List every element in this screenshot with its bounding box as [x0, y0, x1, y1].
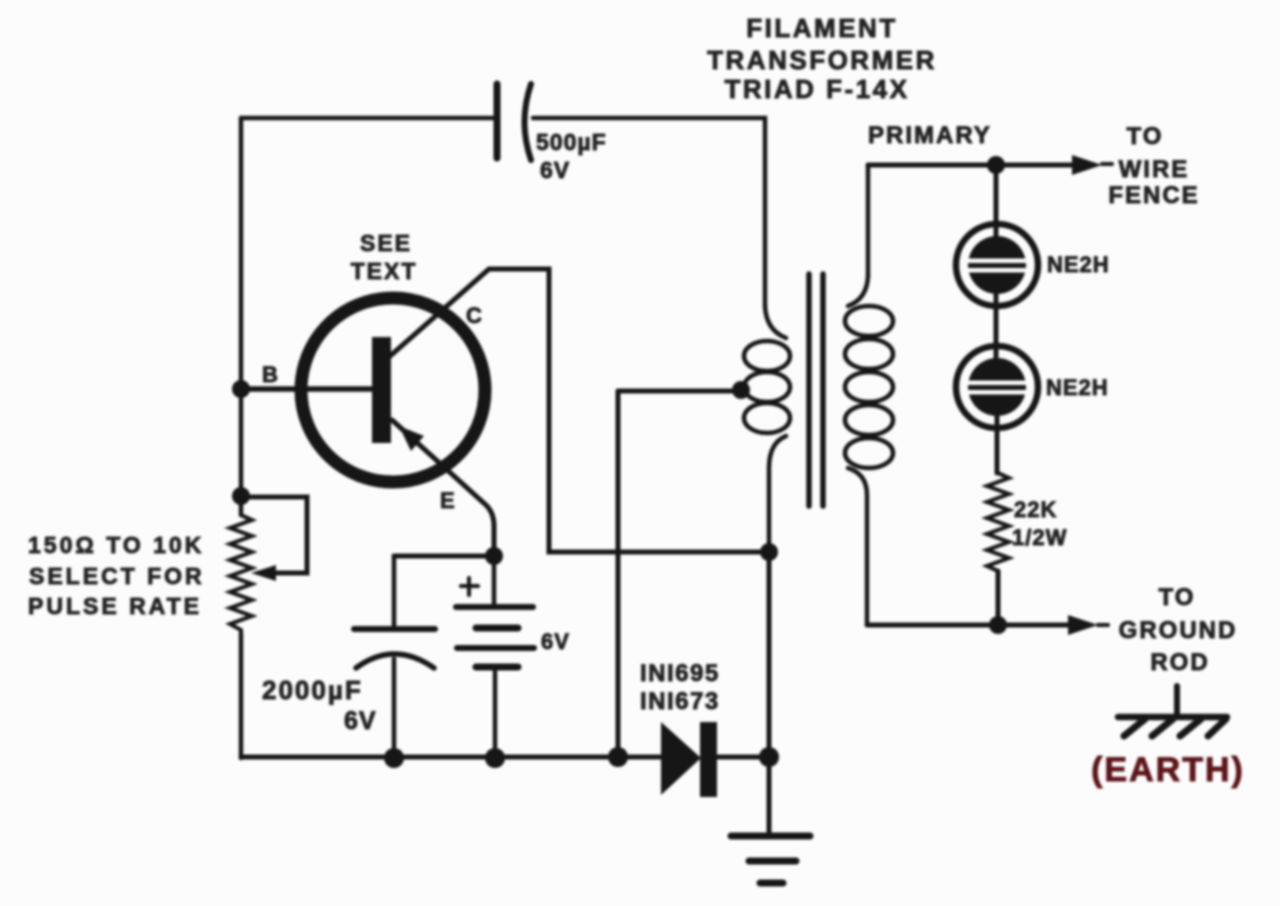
- label TO WIRE FENCE: [1108, 123, 1199, 209]
- svg-text:FILAMENT: FILAMENT: [746, 13, 897, 43]
- wire diode branch vertical: [616, 391, 621, 757]
- node bottom diode-branch dot: [608, 747, 628, 767]
- capacitor C2 2000uF: [354, 556, 435, 757]
- label 150 ohm TO 10K SELECT FOR PULSE RATE: [28, 532, 205, 619]
- node bottom cap dot: [384, 748, 404, 768]
- svg-text:SELECT FOR: SELECT FOR: [29, 563, 205, 589]
- svg-text:B: B: [262, 362, 278, 387]
- svg-text:NE2H: NE2H: [1047, 252, 1110, 277]
- svg-text:22K: 22K: [1014, 497, 1057, 522]
- transformer T1 right winding: [845, 165, 893, 625]
- node pot top junction dot: [232, 487, 250, 505]
- node ground junction dot: [989, 616, 1007, 634]
- wire top from capacitor to transformer corner: [533, 118, 765, 306]
- svg-text:E: E: [440, 488, 455, 513]
- wire left rail top segment: [239, 118, 244, 515]
- wire lamp2 to resistor: [995, 408, 1000, 473]
- wire emitter diagonal: [392, 420, 494, 553]
- svg-text:ROD: ROD: [1150, 649, 1209, 676]
- wire resistor to ground node: [996, 571, 1001, 625]
- wire bottom rail: [241, 755, 661, 760]
- node diode-right junction dot: [759, 747, 779, 767]
- svg-text:GROUND: GROUND: [1119, 617, 1238, 644]
- svg-text:TEXT: TEXT: [351, 258, 418, 284]
- svg-text:C: C: [466, 303, 482, 328]
- resistor R2 22K zigzag: [987, 473, 1009, 571]
- svg-text:NE2H: NE2H: [1046, 375, 1109, 400]
- svg-text:SEE: SEE: [360, 230, 412, 256]
- wire left rail bottom segment: [239, 633, 244, 758]
- neon lamp NE2H no.1: [956, 224, 1038, 306]
- node emitter junction dot: [485, 547, 503, 565]
- label FILAMENT TRANSFORMER TRIAD F-14X: [707, 13, 937, 104]
- wire primary top to fence arrow: [868, 163, 1078, 168]
- battery B1: [456, 556, 534, 757]
- transistor Q1 circle: [301, 298, 485, 482]
- earth electrode stub: [1174, 686, 1180, 714]
- svg-text:TO: TO: [1127, 123, 1164, 150]
- wire pot wiper loop: [241, 497, 307, 573]
- wire collector diagonal and down to node: [389, 269, 766, 552]
- svg-text:1/2W: 1/2W: [1012, 525, 1067, 550]
- svg-text:INI695: INI695: [640, 660, 720, 687]
- label INI695 INI673: [640, 660, 720, 715]
- wire diode to node: [717, 755, 769, 760]
- svg-text:INI673: INI673: [640, 688, 720, 715]
- svg-text:TRANSFORMER: TRANSFORMER: [707, 45, 937, 75]
- svg-text:FENCE: FENCE: [1108, 182, 1199, 209]
- wire to chassis ground: [767, 757, 772, 833]
- node bottom battery dot: [485, 748, 505, 768]
- node fence junction dot: [987, 156, 1005, 174]
- ground symbol: [731, 836, 810, 883]
- transistor base bar: [372, 337, 391, 443]
- svg-text:(EARTH): (EARTH): [1091, 751, 1245, 789]
- wire winding-bottom vertical: [767, 552, 772, 757]
- svg-text:PRIMARY: PRIMARY: [868, 122, 992, 149]
- potentiometer R1 zigzag: [230, 515, 252, 633]
- earth electrode bar: [1118, 714, 1227, 721]
- label SEE TEXT: [351, 230, 418, 284]
- wire emitter row to 2000uF cap: [394, 554, 494, 559]
- emitter arrowhead: [399, 426, 424, 451]
- svg-text:2000µF: 2000µF: [262, 675, 363, 705]
- wire base from left rail: [241, 386, 372, 392]
- wire tap to left winding: [618, 389, 740, 394]
- diode D1 cathode bar: [700, 722, 717, 797]
- svg-text:TO: TO: [1159, 584, 1196, 611]
- neon lamp NE2H no.2: [956, 346, 1038, 428]
- transformer T1 core: [809, 274, 823, 506]
- transformer T1 left winding: [744, 306, 790, 552]
- capacitor C1 500uF plates: [497, 84, 531, 160]
- svg-text:150Ω TO 10K: 150Ω TO 10K: [28, 532, 204, 558]
- svg-text:TRIAD F-14X: TRIAD F-14X: [725, 74, 910, 104]
- ground-rod arrowhead: [1068, 615, 1098, 635]
- wire secondary bottom to ground arrow: [867, 623, 1078, 628]
- label 22K 1/2W: [1012, 497, 1067, 550]
- pot wiper arrowhead: [251, 565, 276, 581]
- node base junction dot: [232, 380, 250, 398]
- node collector-winding junction dot: [760, 543, 778, 561]
- diode D1 triangle: [661, 722, 701, 795]
- label TO GROUND ROD: [1119, 584, 1238, 676]
- wire top from left corner to capacitor: [241, 116, 494, 121]
- node tap dot: [732, 381, 750, 399]
- wire fence node to lamp1: [994, 165, 999, 246]
- svg-text:6V: 6V: [344, 707, 377, 735]
- svg-text:6V: 6V: [540, 157, 570, 183]
- svg-text:PULSE RATE: PULSE RATE: [28, 593, 202, 619]
- earth hatch marks: [1124, 719, 1226, 736]
- svg-text:500µF: 500µF: [536, 129, 607, 155]
- wire between lamps: [994, 286, 999, 368]
- svg-text:WIRE: WIRE: [1119, 156, 1190, 183]
- svg-text:6V: 6V: [541, 629, 570, 654]
- fence arrowhead: [1072, 155, 1102, 175]
